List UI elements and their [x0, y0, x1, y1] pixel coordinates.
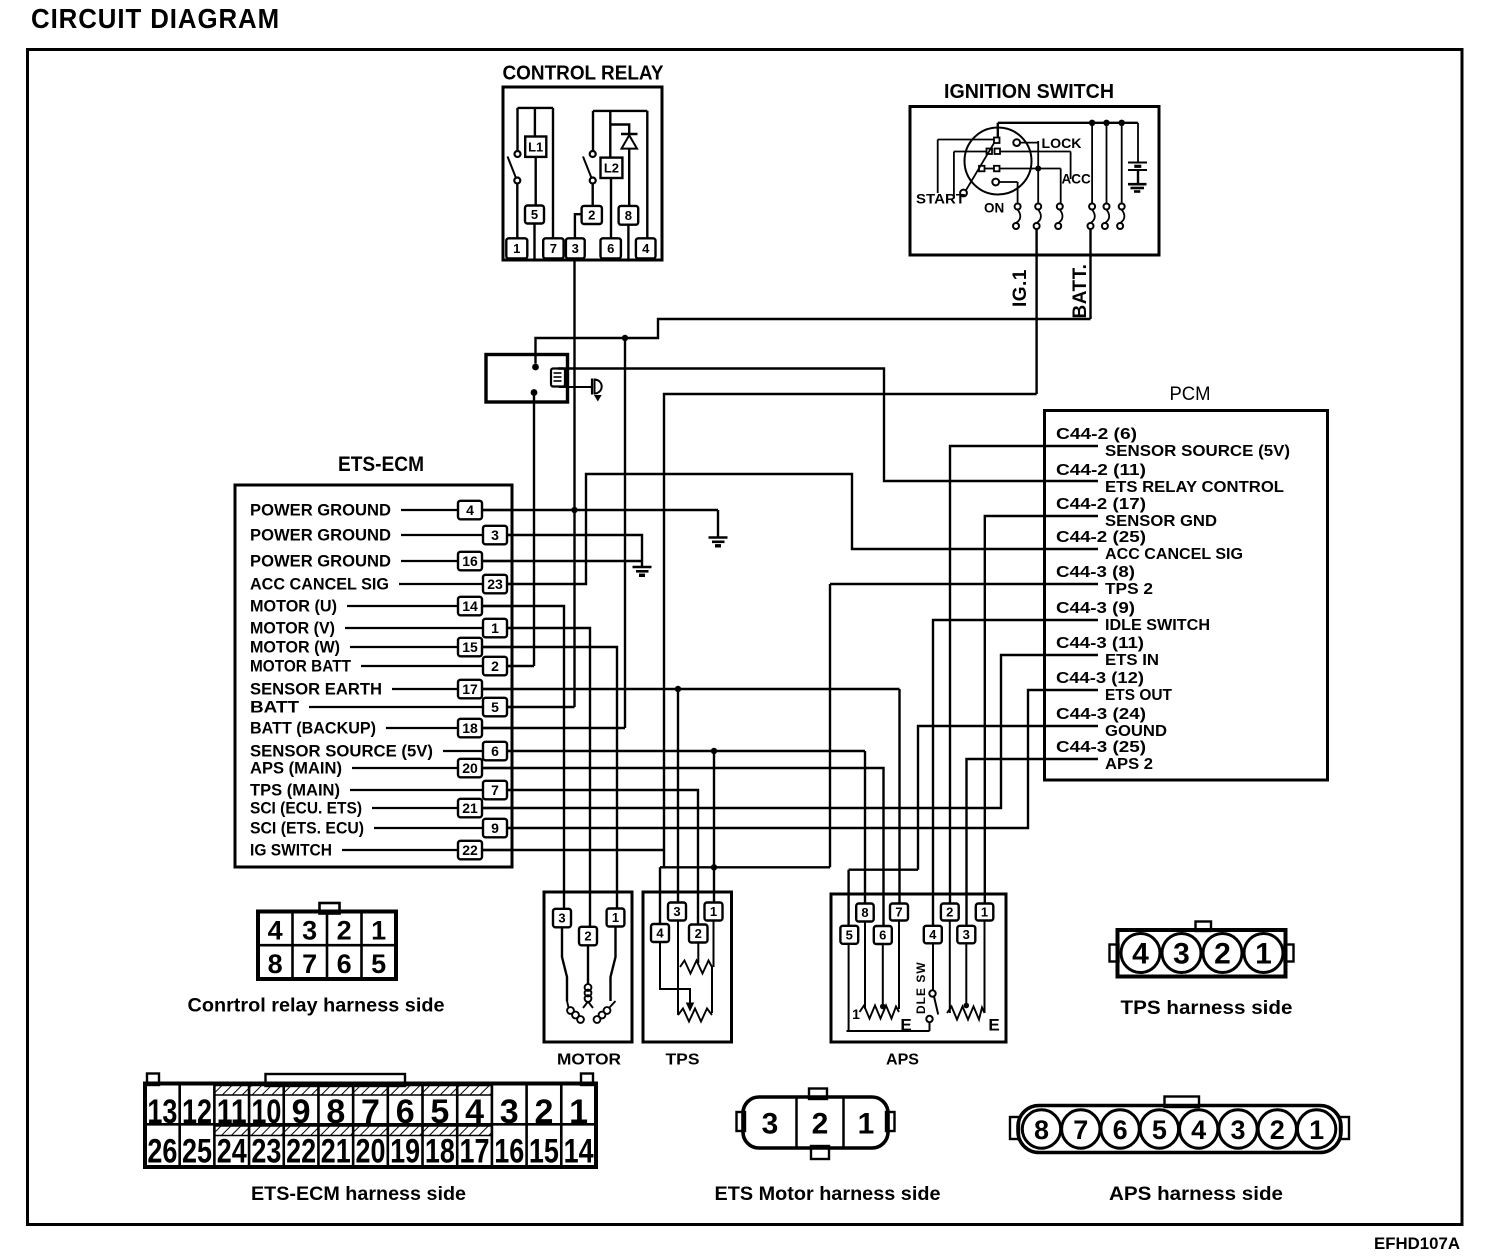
APS pin 8 [856, 904, 874, 922]
svg-text:8: 8 [326, 1093, 345, 1131]
svg-text:START: START [916, 192, 966, 207]
fuse box top terminal [532, 364, 539, 371]
fuse element [551, 369, 565, 387]
svg-text:2: 2 [1214, 938, 1231, 971]
svg-text:18: 18 [462, 720, 478, 736]
wire PCM APS 2 to APS pin3 [967, 759, 1099, 934]
wire PCM GOUND row to APS pin5 [849, 869, 918, 871]
svg-text:1: 1 [513, 241, 520, 256]
ground symbol G1 [709, 536, 728, 539]
svg-text:ACC: ACC [1062, 172, 1091, 187]
APS wiper contact 2 [964, 1003, 970, 1009]
wire MOTOR BATT from fuse box to ECM pin2 [533, 395, 535, 667]
svg-text:6: 6 [1113, 1115, 1128, 1145]
junction bus leg4 [1089, 120, 1095, 126]
relay switch2 lower contact [590, 178, 596, 184]
ignition switch leg 5 [1104, 204, 1110, 210]
ignition switch box [910, 107, 1159, 256]
motor harness bottom tab [811, 1146, 829, 1159]
svg-text:PCM: PCM [1170, 384, 1211, 405]
junction BATT / batt-backup branch [622, 335, 628, 341]
relay pin 7 [543, 238, 563, 258]
svg-text:3: 3 [1173, 938, 1190, 971]
wire relay pin3 to ECM BATT pin5 [573, 260, 575, 707]
wire IG.1 lead down [1035, 229, 1037, 394]
svg-text:21: 21 [462, 800, 478, 816]
motor pin 1 [607, 909, 625, 927]
svg-text:19: 19 [390, 1133, 420, 1171]
svg-text:25: 25 [182, 1133, 212, 1171]
svg-text:5: 5 [1152, 1115, 1167, 1145]
wire bus to leg [1091, 123, 1093, 204]
TPS internal resistor upper [677, 921, 679, 1016]
svg-text:17: 17 [460, 1133, 490, 1171]
svg-text:SENSOR GND: SENSOR GND [1105, 513, 1217, 530]
svg-text:5: 5 [430, 1093, 449, 1131]
relay pin 1 [506, 238, 527, 258]
svg-text:1: 1 [852, 1006, 860, 1022]
APS wiper pin3 [965, 943, 967, 1004]
relay switch1 lower contact [514, 178, 520, 184]
wire ECM pin23 ACC CANCEL SIG to PCM [499, 474, 1098, 584]
svg-text:6: 6 [491, 743, 499, 759]
svg-text:MOTOR BATT: MOTOR BATT [250, 657, 352, 676]
wire BATT. lead down [1089, 229, 1091, 319]
relay switch2 upper contact [590, 151, 596, 157]
relay switch1 upper contact [515, 151, 521, 157]
junction sensor earth to TPS pin3 [675, 686, 681, 692]
diode D1 cathode bar [621, 133, 638, 135]
svg-text:8: 8 [625, 208, 632, 223]
APS pin 5 [840, 926, 858, 944]
svg-text:4: 4 [268, 916, 283, 946]
ignition ON contact [992, 179, 999, 186]
APS idle switch [932, 943, 934, 990]
svg-text:MOTOR (W): MOTOR (W) [250, 638, 340, 657]
TPS connector box [643, 892, 732, 1042]
svg-text:6: 6 [396, 1093, 415, 1131]
motor harness top tab [809, 1089, 827, 1100]
relay pin 5 [525, 206, 544, 224]
wire relay L1 top bus [518, 107, 554, 109]
wire ECM pin4 POWER GROUND to ground [481, 509, 718, 511]
svg-text:23: 23 [487, 576, 503, 592]
svg-text:20: 20 [462, 760, 478, 776]
svg-text:SENSOR SOURCE (5V): SENSOR SOURCE (5V) [1105, 443, 1290, 460]
ignition switch leg 6 [1119, 204, 1125, 210]
wire bus to leg [1106, 123, 1108, 204]
ignition switch leg 2 [1035, 204, 1041, 210]
ecm harness tab right [581, 1074, 593, 1086]
wire bus to coil L2 [609, 111, 611, 158]
svg-text:ETS-ECM: ETS-ECM [338, 453, 424, 476]
wire bus to pin4 [646, 111, 648, 238]
svg-text:C44-3 (24): C44-3 (24) [1056, 706, 1146, 723]
svg-text:14: 14 [462, 598, 478, 614]
wire ignition row2 drop [953, 152, 955, 199]
wire LOCK dash [1021, 142, 1040, 144]
svg-text:1: 1 [569, 1093, 588, 1131]
ignition START contact [960, 190, 967, 197]
ignition LOCK contact [1013, 139, 1020, 146]
svg-text:DLE SW: DLE SW [914, 961, 928, 1014]
ignition contact square r3b [994, 166, 1000, 172]
svg-text:APS (MAIN): APS (MAIN) [250, 759, 342, 778]
svg-text:TPS: TPS [666, 1052, 700, 1069]
svg-text:C44-2 (25): C44-2 (25) [1056, 529, 1146, 546]
wire IG1 column [1037, 141, 1039, 203]
tps harness left nub [1110, 945, 1119, 962]
APS main track resistor [864, 922, 866, 1010]
svg-text:TPS (MAIN): TPS (MAIN) [250, 781, 340, 800]
svg-text:3: 3 [491, 527, 499, 543]
aps harness top tab [1165, 1097, 1200, 1108]
motor pin 2 [579, 927, 597, 946]
ignition switch leg 3 [1057, 204, 1063, 210]
wire ECM pin16 POWER GROUND joins [481, 560, 642, 562]
svg-text:ETS-ECM harness side: ETS-ECM harness side [251, 1184, 466, 1205]
ignition contact square r2b [995, 149, 1001, 155]
svg-text:4: 4 [465, 1093, 484, 1131]
wire relay switch1 feed [516, 108, 518, 151]
relay U1 box [503, 87, 662, 260]
wire row3 to leg3 [1060, 169, 1062, 204]
wire ECM pin14 MOTOR(U) to motor pin3 [481, 606, 564, 910]
fuse box bottom terminal [531, 389, 538, 396]
svg-text:2: 2 [695, 926, 702, 941]
svg-text:2: 2 [812, 1108, 829, 1141]
aps harness right nub [1340, 1117, 1349, 1139]
svg-text:APS harness side: APS harness side [1109, 1184, 1283, 1205]
relay harness top tab [320, 903, 340, 914]
wire ECM pin7 TPS(MAIN) to TPS pin2 [499, 790, 698, 933]
ignition contact square top [994, 138, 1000, 144]
svg-text:1: 1 [710, 904, 717, 919]
svg-text:17: 17 [462, 681, 478, 697]
wire TPS2: vertical x830 and row to PCM [829, 584, 831, 867]
ignition key rotor circle [965, 128, 1032, 195]
svg-text:6: 6 [879, 928, 886, 943]
svg-text:MOTOR: MOTOR [557, 1052, 621, 1069]
svg-text:1: 1 [858, 1108, 875, 1141]
wire ignition row2 right to ACC [1001, 151, 1071, 153]
svg-text:ETS OUT: ETS OUT [1105, 687, 1172, 704]
relay pin 8 [619, 206, 639, 225]
relay pin 2 [582, 206, 602, 224]
APS pin 4 [924, 926, 942, 944]
svg-text:5: 5 [371, 949, 386, 979]
motor pin 3 [553, 909, 571, 928]
wire ECM pin20 APS(MAIN) to APS pin6 [481, 768, 884, 934]
svg-text:IG.1: IG.1 [1010, 269, 1031, 307]
svg-text:3: 3 [1230, 1115, 1245, 1145]
svg-text:C44-2 (6): C44-2 (6) [1056, 426, 1137, 443]
svg-text:TPS harness side: TPS harness side [1121, 998, 1293, 1019]
svg-text:3: 3 [558, 911, 565, 926]
svg-text:1: 1 [612, 910, 619, 925]
wire bus to top contact [997, 123, 999, 138]
wire relay switch1 to pin1 [516, 184, 518, 239]
junction at TPS pin1 column [711, 864, 717, 870]
APS wiper pin6 [882, 944, 884, 1006]
svg-text:1: 1 [981, 905, 988, 920]
TPS internal wiper + lower resistor [660, 942, 690, 1004]
svg-text:9: 9 [491, 820, 499, 836]
svg-text:1: 1 [1255, 938, 1272, 971]
svg-text:20: 20 [355, 1133, 385, 1171]
svg-text:CIRCUIT DIAGRAM: CIRCUIT DIAGRAM [31, 3, 280, 34]
svg-text:ACC CANCEL SIG: ACC CANCEL SIG [1105, 546, 1243, 563]
svg-text:7: 7 [895, 905, 902, 920]
svg-text:BATT (BACKUP): BATT (BACKUP) [250, 719, 376, 738]
svg-text:2: 2 [1270, 1115, 1285, 1145]
svg-text:26: 26 [147, 1133, 177, 1171]
svg-text:4: 4 [1191, 1115, 1206, 1145]
wire ECM pin9 SCI(ETS.ECU) to PCM ETS OUT [499, 690, 1098, 828]
wire ECM pin1 MOTOR(V) to motor pin2 [499, 628, 590, 928]
svg-text:POWER GROUND: POWER GROUND [250, 552, 391, 571]
wire into TPS pin4 [659, 867, 661, 934]
wire bus to leg [1121, 123, 1123, 204]
APS pin 2 [941, 904, 959, 921]
svg-text:7: 7 [361, 1093, 380, 1131]
svg-text:1: 1 [371, 916, 386, 946]
svg-text:CONTROL RELAY: CONTROL RELAY [503, 63, 665, 85]
wire 5V to APS pin8 [864, 751, 866, 912]
tps harness right nub [1285, 945, 1294, 962]
svg-text:2: 2 [337, 916, 352, 946]
svg-text:GOUND: GOUND [1105, 723, 1167, 740]
svg-text:E: E [988, 1016, 999, 1035]
wire relay switch2 feed [592, 111, 594, 151]
diode D1 triangle [622, 135, 638, 148]
svg-text:2: 2 [588, 208, 595, 223]
wire relay top bus to pin7 [552, 108, 554, 238]
svg-text:23: 23 [251, 1133, 281, 1171]
svg-text:11: 11 [217, 1093, 247, 1131]
svg-text:C44-3 (25): C44-3 (25) [1056, 739, 1146, 756]
svg-text:6: 6 [337, 949, 352, 979]
svg-text:TPS 2: TPS 2 [1105, 581, 1153, 598]
svg-text:8: 8 [861, 905, 868, 920]
svg-text:ETS RELAY CONTROL: ETS RELAY CONTROL [1105, 479, 1284, 496]
junction 5V to TPS pin1 [711, 748, 717, 754]
svg-text:C44-2 (11): C44-2 (11) [1056, 462, 1146, 479]
svg-text:LOCK: LOCK [1042, 136, 1082, 151]
svg-text:22: 22 [286, 1133, 316, 1171]
wire ignition row1 drop [937, 140, 939, 194]
svg-text:15: 15 [462, 639, 478, 655]
svg-text:8: 8 [1034, 1115, 1049, 1145]
relay pin 6 [601, 238, 621, 258]
tps harness top tab [1196, 922, 1212, 932]
svg-text:SENSOR EARTH: SENSOR EARTH [250, 680, 382, 699]
wire ECM pin18 BATT(BACKUP) row [481, 727, 625, 729]
wire to TPS pin3 [677, 689, 679, 912]
svg-text:5: 5 [531, 207, 538, 222]
svg-text:9: 9 [292, 1093, 311, 1131]
battery symbol [1137, 123, 1139, 163]
ecm harness tab left [147, 1074, 159, 1086]
APS pin 1 [976, 904, 994, 921]
wire ACC drop [1070, 152, 1072, 180]
hatched strips [215, 1086, 493, 1096]
wire ignition row3 right [1000, 168, 1061, 170]
junction relay3 wire at power ground row [571, 507, 577, 513]
svg-text:ETS IN: ETS IN [1105, 652, 1159, 669]
svg-text:L1: L1 [528, 140, 543, 155]
ignition switch leg 1 [1015, 204, 1021, 210]
svg-text:15: 15 [529, 1133, 559, 1171]
ground under battery [1128, 183, 1147, 186]
svg-text:APS 2: APS 2 [1105, 756, 1153, 773]
wire ignition battery bus [998, 122, 1138, 124]
svg-text:3: 3 [572, 241, 579, 256]
svg-text:IGNITION SWITCH: IGNITION SWITCH [944, 81, 1114, 103]
svg-text:C44-3 (8): C44-3 (8) [1056, 564, 1135, 581]
svg-text:4: 4 [656, 926, 664, 941]
svg-text:SCI (ECU. ETS): SCI (ECU. ETS) [250, 799, 362, 818]
ignition contact square r2a [987, 149, 993, 155]
wire switch2 to pin2 [592, 184, 594, 207]
svg-text:10: 10 [251, 1093, 281, 1131]
wire L1 to pin5 [535, 157, 537, 206]
motor harness left nub [737, 1112, 746, 1131]
wire ECM pin15 MOTOR(W) to motor pin1 [481, 647, 617, 910]
PCM box [1045, 411, 1328, 781]
wire PCM SENSOR SOURCE to APS pin2 [950, 446, 1098, 912]
svg-text:12: 12 [182, 1093, 212, 1131]
ecm harness tab center [266, 1074, 406, 1086]
motor harness right nub [886, 1112, 895, 1131]
wire fuse to noise capacitor [559, 386, 591, 388]
wire stub below IG switch row [663, 850, 665, 867]
svg-text:3: 3 [762, 1108, 779, 1141]
svg-text:C44-2 (17): C44-2 (17) [1056, 496, 1146, 513]
svg-text:16: 16 [462, 553, 478, 569]
wire leg1 drop [1017, 182, 1019, 203]
svg-text:C44-3 (11): C44-3 (11) [1056, 635, 1144, 652]
svg-text:ON: ON [984, 201, 1004, 216]
wire ignition row3 mid [985, 168, 995, 170]
svg-text:7: 7 [491, 782, 499, 798]
wire relay L2 top bus [593, 110, 647, 112]
wire into APS pin5 [847, 870, 849, 934]
svg-text:4: 4 [1132, 938, 1149, 971]
wire pin5 to bottom [533, 224, 535, 259]
svg-text:MOTOR (U): MOTOR (U) [250, 597, 337, 616]
svg-text:16: 16 [494, 1133, 524, 1171]
wire pin2 elbow to pin3 [575, 214, 582, 238]
TPS pin 2 [689, 925, 708, 943]
APS pin 6 [874, 926, 892, 944]
TPS pin 4 [651, 924, 669, 942]
fuse box [486, 355, 568, 403]
wire batt-backup vertical [624, 338, 626, 728]
svg-text:7: 7 [1073, 1115, 1088, 1145]
wire to coil L1 [534, 108, 536, 137]
relay switch2 lever [583, 157, 592, 179]
wire ON contact to leg1 [999, 181, 1017, 183]
svg-text:EFHD107A: EFHD107A [1374, 1235, 1460, 1253]
svg-text:13: 13 [147, 1093, 177, 1131]
relay coil L1 box [525, 137, 546, 157]
svg-text:3: 3 [673, 904, 680, 919]
svg-text:8: 8 [268, 949, 283, 979]
wire to PCM GOUND row [918, 726, 1098, 870]
relay pin 4 [636, 238, 656, 258]
aps harness left nub [1010, 1117, 1019, 1139]
wire fuse to ETS relay control [558, 369, 1098, 482]
svg-text:1: 1 [1309, 1115, 1324, 1145]
svg-text:POWER GROUND: POWER GROUND [250, 526, 391, 545]
svg-text:18: 18 [425, 1133, 455, 1171]
svg-text:1: 1 [491, 620, 499, 636]
svg-text:C44-3 (9): C44-3 (9) [1056, 600, 1135, 617]
wire 5V to TPS pin1 [713, 751, 715, 912]
svg-text:ETS Motor harness side: ETS Motor harness side [715, 1184, 941, 1205]
wire ECM pin17 SENSOR EARTH row [481, 688, 900, 690]
svg-text:IG SWITCH: IG SWITCH [250, 841, 332, 860]
wire L2 to pin6 [610, 178, 612, 238]
wire sensor ground row to TPS pin4 and pin1 [660, 866, 830, 868]
ETS-ECM box [235, 485, 512, 867]
svg-text:MOTOR (V): MOTOR (V) [250, 619, 335, 638]
wire diode to pin8 [628, 149, 630, 206]
ground symbol G2 [633, 566, 652, 569]
svg-text:BATT.: BATT. [1070, 264, 1091, 319]
junction bus leg5 [1103, 120, 1109, 126]
svg-text:4: 4 [929, 927, 937, 942]
svg-text:24: 24 [217, 1133, 247, 1171]
svg-text:APS: APS [886, 1052, 919, 1069]
wire L2 top to diode [610, 125, 629, 135]
APS pin 3 [957, 926, 975, 944]
noise capacitor symbol [591, 379, 593, 395]
TPS pin 3 [668, 903, 686, 921]
svg-text:14: 14 [564, 1133, 594, 1171]
svg-text:5: 5 [846, 928, 853, 943]
wire PCM IDLE SWITCH to APS pin4 [933, 620, 1098, 934]
svg-text:BATT: BATT [250, 698, 300, 717]
svg-text:SCI (ETS. ECU): SCI (ETS. ECU) [250, 819, 364, 838]
junction row3 IG1 column [1035, 166, 1041, 172]
wire ignition diagonal [966, 143, 994, 190]
svg-text:L2: L2 [604, 161, 619, 176]
wire ignition row1 [938, 139, 994, 141]
svg-text:21: 21 [321, 1133, 351, 1171]
svg-text:ACC CANCEL SIG: ACC CANCEL SIG [250, 575, 389, 594]
svg-text:2: 2 [584, 929, 591, 944]
wire ignition row2 left [954, 151, 986, 153]
svg-text:7: 7 [550, 241, 557, 256]
wire ECM pin6 SENSOR SOURCE 5V row [499, 750, 865, 752]
svg-text:22: 22 [462, 842, 478, 858]
TPS pin 1 [705, 903, 723, 921]
MOTOR connector box [544, 892, 632, 1042]
wire ECM pin21 SCI(ECU.ETS) to PCM ETS IN [481, 655, 1098, 808]
svg-text:C44-3 (12): C44-3 (12) [1056, 670, 1144, 687]
wire net IG.1 to ECM IG SWITCH [481, 394, 1037, 850]
wire net BATT: ignition switch to fuse box, battery backup branch [536, 319, 1091, 364]
svg-text:2: 2 [946, 905, 953, 920]
relay switch1 lever [508, 157, 517, 179]
wire sensor earth to APS pin7 [898, 689, 900, 912]
svg-text:6: 6 [607, 241, 614, 256]
svg-text:Conrtrol relay harness side: Conrtrol relay harness side [188, 996, 445, 1017]
svg-text:5: 5 [491, 699, 499, 715]
svg-text:2: 2 [491, 658, 499, 674]
